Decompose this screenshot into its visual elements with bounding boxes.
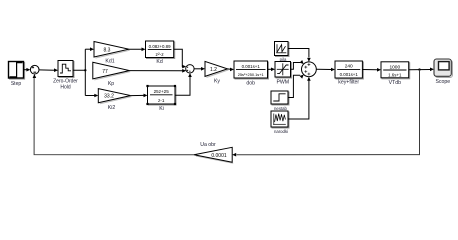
svg-text:Scope: Scope (435, 79, 450, 85)
wire Ky to block dob (228, 68, 235, 72)
svg-text:1.2: 1.2 (210, 67, 217, 73)
wire nestab to Sum3 (288, 75, 304, 98)
gain Kp (77) (93, 62, 130, 87)
svg-text:1.6s+1: 1.6s+1 (388, 72, 402, 77)
wire ZOH to branch point (73, 49, 87, 95)
gain Ky (1.2) (205, 61, 228, 84)
block key+filter 240/(0.001s+1) (335, 61, 363, 85)
svg-text:Kp: Kp (108, 81, 114, 87)
wire Ki to Sum2 (175, 73, 192, 95)
block VTdb 1000/(1.6s+1) (381, 62, 410, 86)
wire Ua obr to Sum1 (bottom feedback) (33, 74, 194, 155)
wire PWM to Sum3 (291, 60, 304, 69)
wire Kd1 to block Kd (129, 48, 146, 52)
block Zero-Order Hold (53, 61, 78, 91)
svg-text:narodki: narodki (274, 129, 288, 134)
wire key+filter to VTdb (362, 68, 381, 72)
svg-text:77: 77 (102, 69, 108, 75)
svg-text:33.2: 33.2 (104, 94, 114, 100)
block Kd (0.08z+0.89)/(z^2-z) (146, 41, 175, 65)
block narodki (noise source) (271, 111, 289, 134)
wire narodki to Sum3 (288, 77, 311, 119)
gain Ki2 (33.2) (98, 89, 131, 111)
wire Sum1 to Zero-Order Hold (39, 68, 58, 72)
block Ki (25z+25)/(z-1), selected with corner handles (146, 85, 176, 112)
gain Ua obr (0.0001), left-pointing (194, 142, 233, 164)
svg-text:dob: dob (246, 80, 255, 86)
wire Sum2 to gain Ky (194, 67, 205, 71)
svg-text:Ki: Ki (159, 106, 164, 112)
wire VTdb to Scope with feedback junction (409, 68, 434, 72)
svg-text:Ki2: Ki2 (108, 105, 116, 111)
svg-text:25z+25: 25z+25 (154, 89, 170, 94)
block pila (sawtooth source) (275, 42, 290, 62)
block dob (0.001s+1)/(25s^2+250.1s+1) (234, 61, 269, 86)
wire branch to gain Kd1 (85, 47, 94, 51)
svg-text:0.001s+1: 0.001s+1 (242, 64, 261, 69)
svg-text:Kd1: Kd1 (105, 59, 114, 65)
svg-text:8.3: 8.3 (104, 47, 111, 53)
wire dob to PWM (268, 68, 276, 72)
svg-text:0.0001: 0.0001 (211, 153, 227, 159)
svg-text:nestab: nestab (274, 106, 288, 111)
sum junction Sum2 (186, 65, 194, 73)
svg-text:key+filter: key+filter (338, 79, 359, 85)
svg-text:Kd: Kd (156, 59, 162, 65)
svg-text:Step: Step (11, 81, 22, 87)
svg-text:0.001s+1: 0.001s+1 (340, 72, 359, 77)
wire branch to gain Ki2 (85, 94, 98, 98)
svg-text:25s²+250.1s+1: 25s²+250.1s+1 (238, 72, 264, 77)
sum junction Sum3 (302, 62, 317, 77)
svg-text:Ua obr: Ua obr (200, 142, 216, 148)
svg-text:1000: 1000 (389, 64, 400, 70)
block nestab (step source) (271, 91, 289, 111)
wire Kd to Sum2 (174, 49, 187, 68)
svg-text:z-1: z-1 (158, 98, 165, 103)
scope Scope (434, 59, 453, 85)
gain Kd1 (8.3) (94, 42, 130, 65)
svg-text:VTdb: VTdb (389, 80, 402, 86)
svg-text:z²-z: z²-z (156, 52, 165, 58)
svg-text:0.08z+0.89: 0.08z+0.89 (149, 44, 171, 49)
sum junction Sum1 (30, 65, 39, 74)
svg-text:Ky: Ky (214, 78, 220, 84)
svg-text:240: 240 (345, 64, 353, 70)
step source Step (9, 62, 25, 88)
wire Kp to Sum2 (130, 69, 187, 73)
svg-text:Hold: Hold (60, 85, 71, 91)
svg-text:PWM: PWM (276, 79, 289, 85)
wire Sum3 to key+filter (316, 68, 335, 72)
wire pila to Sum3 (288, 49, 311, 62)
wire feedback from junction down to Ua obr (232, 70, 419, 157)
wire Step to Sum1 (24, 68, 31, 72)
wire Ki2 to block Ki (131, 94, 148, 98)
block PWM (saturation) (275, 62, 292, 86)
